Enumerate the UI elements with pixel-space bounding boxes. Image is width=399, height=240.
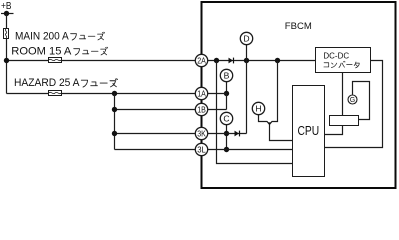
diode D1 on 2A rail: [229, 58, 234, 64]
svg-text:3L: 3L: [197, 145, 206, 155]
CPU box: [293, 86, 325, 177]
wire 3L inside to CPU: [202, 149, 293, 151]
wire dot-b down to 3K diode wire: [246, 61, 248, 134]
fuse HAZARD 25A: [49, 91, 62, 96]
diode D2 on 3K wire: [235, 131, 240, 137]
fuse MAIN 200A (vertical): [4, 29, 9, 39]
wire DC-DC bottom to relay: [342, 73, 344, 116]
wire ROOM line: [7, 60, 202, 62]
junction dot ROOM/+B: [4, 58, 9, 63]
svg-text:MAIN 200 A: MAIN 200 A: [15, 30, 69, 42]
junction dot at +B: [4, 11, 9, 16]
FBCM box: [202, 2, 396, 188]
+B terminal bar: [1, 13, 14, 15]
wire 1B inside: [202, 109, 227, 111]
junction dot 2A-c: [275, 58, 280, 63]
wire C stub down: [226, 125, 228, 150]
fuse ROOM 15A: [49, 58, 62, 63]
connector circle C: [220, 112, 232, 124]
wire HAZARD line: [7, 93, 202, 95]
wire DC-DC right loop to CPU: [325, 61, 383, 148]
svg-text:1A: 1A: [197, 89, 206, 99]
svg-text:H: H: [255, 104, 261, 114]
svg-text:FBCM: FBCM: [285, 21, 312, 31]
wire relay bottom to CPU: [325, 126, 343, 135]
wire vertical from +B down: [6, 14, 8, 94]
junction dot on 1A wire: [224, 91, 229, 96]
junction dot C/3K: [224, 131, 229, 136]
merge arrowhead: [268, 122, 272, 125]
wire 1A inside: [202, 93, 227, 95]
junction dot 2A-a: [214, 58, 219, 63]
svg-text:3K: 3K: [197, 129, 206, 139]
svg-text:+B: +B: [1, 0, 12, 12]
wire from dot a down to CPU pin3: [217, 61, 293, 164]
svg-text:HAZARD 25 A: HAZARD 25 A: [14, 77, 80, 89]
svg-text:D: D: [243, 34, 249, 44]
wire B stub: [226, 82, 228, 94]
terminal circle 1B: [195, 103, 207, 115]
junction dot HAZARD branch: [112, 91, 117, 96]
wire 1A-1B link: [226, 94, 228, 110]
wire 3K inside: [202, 133, 247, 135]
svg-text:DC-DC: DC-DC: [323, 50, 349, 60]
connector circle B: [220, 69, 232, 81]
wire 3K feed: [115, 133, 202, 135]
junction dot 2A-b: [244, 58, 249, 63]
wire 3L feed: [115, 149, 202, 151]
junction dot C/3L: [224, 147, 229, 152]
wire 1B feed: [115, 109, 202, 111]
terminal circle 3K: [195, 127, 207, 139]
wire right branch of merge: [270, 61, 278, 125]
connector circle H: [252, 102, 264, 114]
svg-text:1B: 1B: [197, 105, 206, 115]
junction dot 1B feed: [112, 107, 117, 112]
wire H stub: [259, 115, 270, 125]
wire relay to G loop: [353, 82, 370, 120]
wire D stub: [246, 45, 248, 61]
DC-DC converter box: [316, 48, 371, 73]
wire 2A rail inside: [202, 60, 316, 62]
junction dot 3K feed: [112, 131, 117, 136]
svg-text:ROOM 15 A: ROOM 15 A: [11, 46, 71, 58]
label konbata (katakana): [324, 61, 359, 68]
terminal circle 1A: [195, 87, 207, 99]
wire merge stem to CPU: [270, 125, 293, 141]
terminal circle 2A: [195, 54, 207, 66]
relay coil box: [330, 116, 359, 126]
connector circle G: [348, 95, 357, 104]
svg-text:C: C: [223, 114, 229, 124]
wire branch vertical: [114, 94, 116, 150]
svg-text:CPU: CPU: [297, 123, 319, 138]
connector circle D: [240, 32, 252, 44]
svg-text:B: B: [224, 71, 230, 81]
svg-text:G: G: [350, 97, 355, 104]
terminal circle 3L: [195, 143, 207, 155]
svg-text:2A: 2A: [197, 56, 206, 66]
